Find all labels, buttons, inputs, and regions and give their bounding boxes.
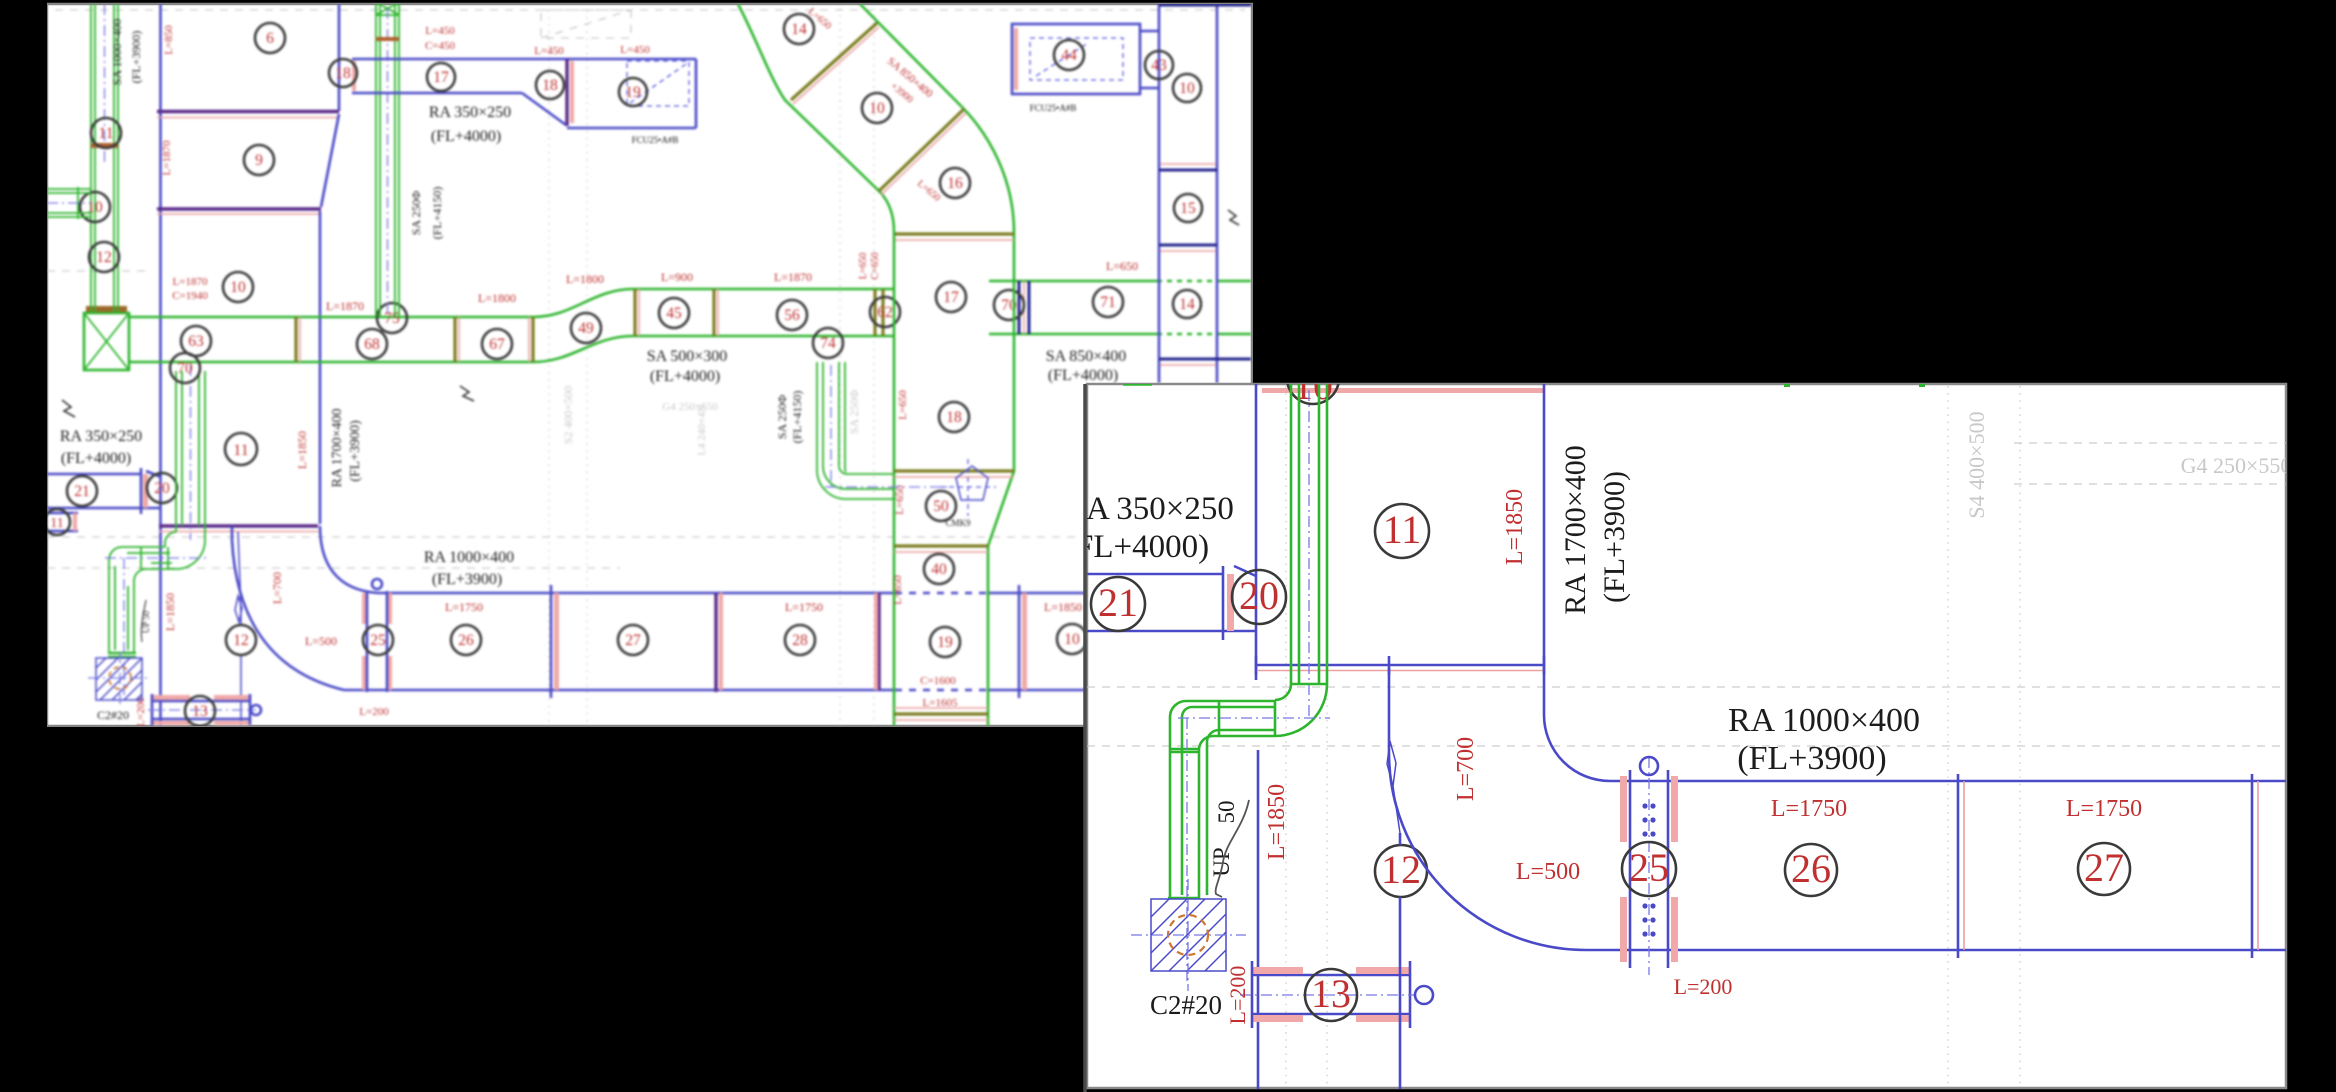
svg-text:25: 25 [1629, 845, 1669, 890]
svg-text:71: 71 [1100, 294, 1116, 311]
balloon 10s [862, 93, 892, 123]
balloon 71 [1093, 287, 1123, 317]
svg-text:74: 74 [820, 335, 836, 352]
flow mark b [62, 400, 75, 417]
tick x1389 [1388, 656, 1391, 675]
tick x1544 [1543, 656, 1546, 675]
wall line x1400 lower [1399, 833, 1402, 1089]
svg-text:L=1800: L=1800 [566, 272, 604, 286]
left SA riser walls [91, 4, 118, 313]
box 19 [567, 59, 696, 128]
svg-text:67: 67 [489, 336, 505, 353]
left riser joint [91, 143, 118, 148]
SA elbow big inner arc [1275, 684, 1291, 700]
balloon 63 [181, 326, 211, 356]
svg-text:G4 250×550: G4 250×550 [2181, 453, 2292, 478]
green tick on border c [1919, 382, 1925, 387]
SA down run big [1170, 717, 1207, 899]
svg-text:(FL+3900): (FL+3900) [432, 571, 502, 588]
svg-text:L=1870: L=1870 [161, 140, 173, 175]
RA riser joint y359 [1159, 358, 1251, 361]
svg-text:10: 10 [869, 100, 885, 117]
svg-text:(FL+4000): (FL+4000) [650, 368, 720, 385]
SA down joint [1170, 749, 1198, 752]
svg-text:L=200: L=200 [1674, 974, 1733, 999]
grid dashed row a [1087, 686, 2286, 688]
balloon 11L [91, 118, 121, 148]
svg-text:62: 62 [877, 304, 893, 321]
duct joint x1019 [1018, 585, 1021, 698]
UP 50 leader small [141, 600, 146, 642]
svg-text:15: 15 [1180, 200, 1196, 217]
svg-text:CMK9: CMK9 [945, 518, 971, 528]
SA horizontal joints [1219, 701, 1275, 736]
svg-text:L=1870: L=1870 [774, 270, 812, 284]
hatched box cross [88, 652, 150, 704]
svg-text:(FL+3900): (FL+3900) [348, 420, 363, 482]
left stub duct [47, 187, 91, 219]
SA trunk hidden dashes at riser [1157, 281, 1217, 334]
svg-text:26: 26 [458, 632, 474, 649]
SA trunk right top [989, 280, 1251, 283]
SA horizontal big run [1186, 701, 1275, 736]
svg-text:18: 18 [335, 65, 351, 82]
SA S-curve duct outer edge [738, 4, 894, 726]
duct RA350 top row [352, 58, 696, 61]
svg-text:(FL+3900): (FL+3900) [1598, 471, 1631, 603]
svg-text:L=1850: L=1850 [295, 431, 309, 469]
svg-text:L=1750: L=1750 [785, 600, 823, 614]
trunk joint x1019 [1019, 281, 1029, 334]
balloon 21 [67, 476, 97, 506]
duct RA1000x400 bottom edge [344, 689, 895, 692]
svg-text:26: 26 [1791, 846, 1831, 891]
duct joint x551 [550, 585, 553, 698]
joint x2252 [2251, 774, 2254, 958]
duct stub left edge [47, 513, 78, 531]
balloon 14rr [1173, 290, 1201, 318]
balloon 21 big [1091, 577, 1145, 631]
damper D25 [362, 593, 368, 624]
svg-text:17: 17 [433, 69, 449, 86]
svg-text:L=650: L=650 [892, 575, 904, 605]
mid SA riser walls [376, 4, 399, 317]
svg-text:L=450: L=450 [620, 44, 650, 56]
black strip right [2288, 0, 2336, 1092]
wall W3 purple [159, 524, 318, 527]
SA left elbow [109, 547, 146, 581]
hatched box big [1151, 899, 1226, 971]
balloon 11b [44, 509, 70, 535]
balloon 25 big [1622, 842, 1676, 896]
svg-text:9: 9 [255, 152, 263, 169]
RA riser joint y170 [1159, 169, 1217, 172]
svg-text:(FL+4000): (FL+4000) [1048, 367, 1118, 384]
svg-text:12: 12 [96, 249, 112, 266]
svg-text:L=500: L=500 [1516, 859, 1580, 885]
damper centerline symbols [1648, 757, 1650, 975]
S-curve joint J1 [791, 23, 877, 100]
svg-text:SA 850×400: SA 850×400 [1046, 348, 1127, 365]
trunk joint x875 [875, 289, 883, 336]
svg-text:(FL+3900): (FL+3900) [129, 31, 143, 84]
svg-text:50: 50 [933, 498, 949, 515]
balloon 12 big [1375, 845, 1427, 897]
svg-text:14: 14 [791, 21, 807, 38]
svg-text:L=1850: L=1850 [1264, 784, 1290, 860]
svg-text:56: 56 [784, 307, 800, 324]
SA riser elbow inner [165, 532, 176, 547]
duct 13 end symbol [251, 705, 261, 715]
SA trunk inlet box [84, 313, 129, 370]
SA elbow big outer arc [1275, 684, 1327, 736]
svg-text:63: 63 [188, 333, 204, 350]
SA end cap big [1168, 897, 1200, 900]
svg-text:18: 18 [946, 409, 962, 426]
balloon 40 [924, 554, 954, 584]
balloon 18 [329, 59, 357, 87]
SA horizontal run walls [122, 547, 176, 569]
balloon 27 [618, 625, 648, 655]
SA horizontal joints [141, 547, 168, 569]
grid dotted column B [586, 10, 588, 726]
RA1000 big outer vertical [1388, 668, 1391, 753]
duct RA1000x400 top edge [378, 592, 895, 595]
hatched box cross big [1131, 879, 1246, 991]
svg-text:SA 500×300: SA 500×300 [647, 348, 728, 365]
centerline horizontal big [1178, 717, 1330, 719]
svg-text:L=450: L=450 [534, 45, 564, 57]
balloon 26 [451, 625, 481, 655]
balloon 25 [363, 625, 393, 655]
RA1000 big top edge [1610, 780, 2286, 783]
SA riser joint y684 [1291, 683, 1327, 686]
balloon 62 [870, 297, 900, 327]
balloon 18s [939, 402, 969, 432]
hatched box circle [109, 667, 131, 689]
green tick on border b [1784, 382, 1790, 387]
svg-text:21: 21 [1098, 580, 1138, 625]
trunk joint x455 [453, 317, 456, 362]
balloon 27 big [2078, 843, 2130, 895]
grid dashed line mid2 [47, 567, 620, 569]
svg-text:L=1850: L=1850 [1502, 489, 1528, 565]
SA trunk top edge [129, 289, 894, 317]
svg-text:L=650: L=650 [1106, 259, 1138, 273]
SA riser big vertical walls [1291, 384, 1327, 684]
svg-text:C2#20: C2#20 [97, 708, 129, 722]
balloon 75 [377, 303, 407, 333]
balloon 19 [619, 78, 647, 106]
wall line x1258 lower [1257, 750, 1260, 1089]
black mask bottom-left [0, 727, 1083, 1092]
balloon 70a [170, 353, 200, 383]
svg-text:L=1750: L=1750 [2066, 796, 2142, 822]
svg-text:12: 12 [1381, 847, 1421, 892]
svg-text:L=500: L=500 [305, 634, 337, 648]
duct RA350 big bottom edge [1087, 630, 1256, 633]
svg-text:50: 50 [1214, 801, 1239, 824]
svg-text:C2#20: C2#20 [1150, 990, 1222, 1020]
svg-text:G4 250×550: G4 250×550 [662, 401, 718, 413]
S-curve joint J5 [894, 544, 988, 547]
svg-text:C=450: C=450 [425, 40, 456, 52]
svg-text:L=850: L=850 [163, 25, 175, 55]
svg-text:43: 43 [1151, 57, 1167, 74]
RA1000 big inner arc [1544, 715, 1610, 781]
balloon 67 [482, 329, 512, 359]
svg-text:L=1850: L=1850 [163, 593, 177, 631]
trunk joint x296 [294, 317, 297, 362]
balloon 43 [1145, 51, 1173, 79]
S-curve joint J3 [895, 232, 1014, 235]
svg-text:40: 40 [931, 561, 947, 578]
svg-text:RA 350×250: RA 350×250 [60, 428, 142, 445]
balloon 19b [930, 627, 960, 657]
svg-text:RA 350×250: RA 350×250 [429, 104, 511, 121]
balloon 44 [1054, 40, 1084, 70]
RA1700 duct left wall [1255, 384, 1258, 680]
svg-text:28: 28 [792, 632, 808, 649]
grid dotted column C [839, 8, 841, 726]
red bar under top border [1262, 388, 1543, 393]
S-curve joint J4 [894, 469, 1014, 472]
SA 250 riser mid-low [817, 362, 845, 470]
trunk joint x714 [712, 289, 715, 336]
duct 13 run [152, 701, 250, 719]
svg-text:21: 21 [74, 483, 90, 500]
balloon 13 [185, 696, 215, 726]
balloon 10t [223, 272, 253, 302]
svg-text:(FL+4000): (FL+4000) [61, 450, 131, 467]
svg-text:6: 6 [266, 30, 274, 47]
balloon 28 [785, 625, 815, 655]
wall line x339 [338, 4, 341, 111]
tick x1256 [1255, 656, 1258, 675]
svg-text:(FL+4000): (FL+4000) [431, 128, 501, 145]
svg-text:L=1870: L=1870 [173, 276, 208, 288]
balloon 17t [936, 282, 966, 312]
faint box top [541, 10, 631, 38]
svg-text:S2 400×500: S2 400×500 [561, 386, 575, 444]
svg-text:L=200: L=200 [1225, 966, 1250, 1025]
svg-text:75: 75 [384, 310, 400, 327]
SA riser big centerline [1308, 390, 1310, 716]
svg-text:19: 19 [937, 634, 953, 651]
grid dashed line left [47, 270, 150, 272]
grid dotted column F [1326, 386, 1328, 1088]
wall line x320 [319, 211, 322, 524]
svg-text:L=450: L=450 [425, 25, 455, 37]
svg-text:RA 1700×400: RA 1700×400 [1559, 445, 1592, 614]
svg-text:SA 250Φ: SA 250Φ [775, 395, 789, 440]
black strip left [0, 0, 47, 1092]
balloon 45 [659, 298, 689, 328]
svg-text:10: 10 [1064, 631, 1080, 648]
RA riser joint top [1159, 4, 1251, 7]
balloon 17 [427, 63, 455, 91]
balloon 10b [1057, 624, 1087, 654]
balloon 15r [1174, 194, 1202, 222]
balloon 16s [940, 168, 970, 198]
RA1700 duct bottom edge [1256, 664, 1544, 667]
black mask top-right [1253, 0, 2336, 383]
svg-text:RA 1000×400: RA 1000×400 [424, 549, 514, 566]
RA riser right wall b [1216, 4, 1219, 383]
SA trunk right bottom [989, 333, 1251, 336]
svg-text:RA 350×250: RA 350×250 [1064, 491, 1234, 527]
S-curve joint J2 [879, 109, 964, 191]
svg-text:S4 400×500: S4 400×500 [1964, 411, 1989, 518]
duct RA350x250 run 21 [47, 474, 161, 508]
S-curve joint J6 [894, 712, 988, 715]
svg-text:L=1750: L=1750 [445, 600, 483, 614]
svg-text:(FL+4150): (FL+4150) [430, 187, 444, 240]
duct 13 big run [1252, 975, 1410, 1014]
svg-text:11: 11 [233, 442, 248, 459]
SA riser elbow outer [176, 540, 205, 569]
faint dashed band top right [2014, 443, 2286, 484]
leader line and diamond big [1389, 673, 1400, 833]
balloon 9 [244, 145, 274, 175]
svg-text:FCU25•A#B: FCU25•A#B [1030, 103, 1077, 113]
hatched box circle big [1168, 915, 1208, 955]
svg-text:49: 49 [578, 320, 594, 337]
svg-text:11: 11 [50, 516, 63, 531]
duct RA350 big top edge [1087, 573, 1223, 576]
grid dashed line mid [47, 536, 1082, 538]
wall W2 purple [157, 207, 321, 210]
svg-text:11: 11 [99, 125, 114, 142]
balloon 12 [226, 625, 256, 655]
svg-text:L=200: L=200 [359, 706, 389, 718]
svg-text:11: 11 [1383, 507, 1422, 552]
svg-text:RA 1000×400: RA 1000×400 [1728, 702, 1920, 739]
SA trunk bottom edge [129, 336, 894, 362]
svg-text:12: 12 [233, 632, 249, 649]
RA1700 bottom red line [1258, 670, 1544, 672]
svg-text:L=700: L=700 [1453, 737, 1479, 801]
FCU box top right [1012, 24, 1140, 94]
svg-text:70: 70 [177, 360, 193, 377]
svg-text:L=900: L=900 [661, 270, 693, 284]
svg-text:FCU25•A#B: FCU25•A#B [632, 135, 679, 145]
svg-text:20: 20 [1239, 573, 1279, 618]
grid dotted column H [2019, 386, 2021, 1088]
balloon 50 [926, 491, 956, 521]
transition diagonal [522, 93, 566, 125]
joint x1958 [1957, 774, 1960, 958]
window 2 left border [1083, 384, 1087, 1092]
joint purple box19 [565, 59, 568, 126]
RA1700 duct right wall [1543, 384, 1546, 715]
svg-text:L=650: L=650 [894, 485, 906, 515]
svg-text:C=1940: C=1940 [172, 290, 208, 302]
balloon 74 [813, 328, 843, 358]
svg-text:L=650: L=650 [858, 253, 869, 280]
UP leader big [1216, 800, 1249, 897]
flow mark c [1228, 210, 1239, 225]
grid dotted column E [1285, 386, 1287, 1088]
svg-text:L=1850: L=1850 [1044, 600, 1082, 614]
SA down run [109, 560, 134, 653]
svg-text:SA 1000×400: SA 1000×400 [110, 19, 124, 85]
svg-text:L=1870: L=1870 [326, 299, 364, 313]
RA riser right wall a [1158, 4, 1161, 383]
svg-text:SA 250Φ: SA 250Φ [847, 390, 861, 435]
SA riser duct (bottom-left) vertical run [176, 371, 205, 540]
svg-text:27: 27 [2084, 845, 2124, 890]
balloon 68 [357, 329, 387, 359]
svg-text:C=1600: C=1600 [920, 675, 956, 687]
svg-text:25: 25 [370, 632, 386, 649]
balloon 20 [147, 473, 177, 503]
duct RA1000x400 inner elbow arc [320, 526, 378, 593]
damper 25 big [1620, 776, 1627, 842]
balloon 11 [225, 433, 257, 465]
trunk joint x533 [531, 317, 534, 362]
RA1000 big bottom edge [1586, 949, 2286, 952]
balloon 10r [1173, 74, 1201, 102]
duct RA1000x400 top edge hidden dashes [895, 592, 989, 595]
svg-text:C=650: C=650 [870, 252, 881, 279]
svg-text:10: 10 [1179, 80, 1195, 97]
balloon 26 big [1785, 844, 1837, 896]
svg-text:(FL+3900): (FL+3900) [1737, 740, 1887, 777]
hatched box C2 [96, 658, 142, 700]
grid dotted column D [873, 8, 875, 726]
svg-text:14: 14 [1179, 296, 1195, 313]
balloon 20 big [1232, 570, 1286, 624]
svg-text:L=1800: L=1800 [478, 291, 516, 305]
diffuser pentagon [956, 466, 988, 500]
wall W1 purple [157, 110, 339, 113]
SA end cap [108, 653, 136, 657]
left riser centerline [104, 4, 106, 165]
green tick on border a [1123, 383, 1152, 386]
balloon 70b [994, 290, 1024, 320]
svg-text:L=650: L=650 [897, 390, 909, 420]
svg-text:L=200: L=200 [135, 697, 147, 727]
svg-text:45: 45 [666, 305, 682, 322]
svg-text:68: 68 [364, 336, 380, 353]
flow mark a [460, 386, 474, 401]
svg-text:27: 27 [625, 632, 641, 649]
svg-text:UP 50: UP 50 [141, 610, 151, 633]
duct RA1000x400 outer elbow arc [232, 526, 344, 690]
balloon 12L [89, 242, 119, 272]
balloon 6 [255, 23, 285, 53]
balloon 10 top [1287, 352, 1339, 404]
duct joint x716 [714, 593, 717, 692]
balloon 18b [536, 71, 564, 99]
balloon 11 big [1375, 504, 1429, 558]
svg-text:20: 20 [154, 480, 170, 497]
leader line to balloon 12 [238, 532, 241, 726]
transition diagonal big [1234, 566, 1256, 576]
SA S-curve duct inner edge [860, 4, 1014, 726]
wall slant [321, 114, 339, 207]
svg-text:(FL+4150): (FL+4150) [790, 391, 804, 444]
viewport window 2 (zoom sheet) [1087, 384, 2286, 1088]
duct 13 end symbol big [1415, 986, 1433, 1004]
joint x1223 [1222, 566, 1225, 640]
wall line x160 [159, 4, 162, 726]
centerline riser [190, 365, 192, 540]
leader diamond [235, 596, 242, 622]
grid dashed line top [55, 9, 1245, 11]
balloon 49 [571, 313, 601, 343]
